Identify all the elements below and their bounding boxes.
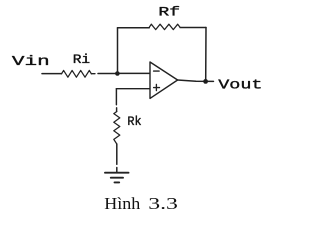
wire to input junction	[98, 73, 117, 75]
wire dash after Ri	[91, 73, 95, 75]
op-amp minus input symbol	[154, 70, 160, 72]
wire input left segment	[42, 73, 62, 75]
wire non-inverting input horizontal	[116, 88, 149, 90]
wire junction to op-amp inverting input	[117, 72, 149, 74]
svg-text:Hình: Hình	[104, 194, 140, 213]
wire output from op-amp apex	[178, 80, 214, 81]
svg-text:Vout: Vout	[218, 76, 262, 92]
svg-text:3.3: 3.3	[148, 195, 178, 213]
resistor Rk vertical zigzag	[114, 112, 120, 145]
wire feedback left vertical	[117, 28, 119, 74]
op-amp plus input symbol	[154, 84, 160, 90]
svg-text:Rk: Rk	[127, 115, 141, 129]
resistor Rf zigzag	[149, 24, 180, 29]
svg-text:Vin: Vin	[12, 54, 50, 70]
wire Rk bottom lead upper part	[116, 144, 118, 164]
wire feedback top left segment	[118, 27, 150, 29]
wire non-inverting corner down to Rk	[115, 89, 117, 112]
wire feedback right vertical down to output	[205, 28, 207, 82]
ground	[105, 173, 129, 183]
node junction A (input)	[115, 71, 120, 76]
node output junction	[203, 79, 208, 84]
resistor R i zigzag	[62, 70, 92, 77]
wire feedback top right segment	[180, 27, 206, 29]
op-amp U1 triangle	[150, 62, 178, 98]
wire Rk bottom lead lower part	[116, 168, 118, 172]
svg-text:Ri: Ri	[73, 53, 90, 68]
svg-text:Rf: Rf	[158, 5, 180, 19]
